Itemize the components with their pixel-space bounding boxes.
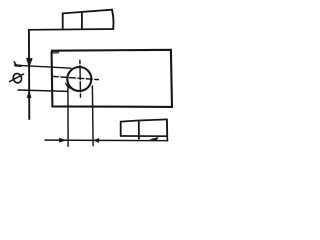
bottom dimension boxes divider <box>138 120 140 138</box>
hole circle <box>67 67 91 91</box>
diameter dimension vertical line <box>28 30 30 119</box>
diameter symbol circle <box>12 72 23 83</box>
bottom tangent extension line <box>18 90 68 91</box>
top tangent extension line <box>15 65 71 68</box>
diameter symbol slash <box>10 74 24 82</box>
up arrowhead on diameter dimension <box>27 91 31 98</box>
bottom dimension line <box>45 139 167 142</box>
small arrow mark under right bottom box <box>150 137 158 140</box>
right extension line from hole tangent <box>91 86 94 146</box>
top connector line / top boxes bottom edge <box>29 28 114 31</box>
top dimension box left edge <box>62 13 64 29</box>
vertical centerline of hole <box>79 60 82 97</box>
left extension line from hole tangent <box>67 82 69 147</box>
hook at left end of top tangent line <box>14 62 16 66</box>
left-pointing arrowhead on bottom dimension <box>94 138 99 142</box>
bottom dimension boxes top edge <box>121 119 167 121</box>
down arrowhead on diameter dimension <box>26 58 32 67</box>
wobble stroke inside hole lower-left <box>66 83 72 89</box>
bottom dimension boxes right edge <box>166 119 168 136</box>
right-pointing arrowhead on bottom dimension <box>59 138 66 142</box>
top dimension boxes top edge <box>63 10 112 14</box>
bottom dimension boxes bottom edge <box>121 135 168 137</box>
horizontal centerline of hole <box>52 76 98 79</box>
plate top-left corner ink blob <box>52 51 58 54</box>
thick left end of top tangent line <box>15 64 21 67</box>
top dimension boxes divider <box>81 12 83 29</box>
top dimension boxes right edge <box>112 10 114 29</box>
bottom dimension box left edge <box>120 122 122 136</box>
connector from bottom boxes to dimension line <box>166 136 168 140</box>
plate outline <box>52 50 172 107</box>
